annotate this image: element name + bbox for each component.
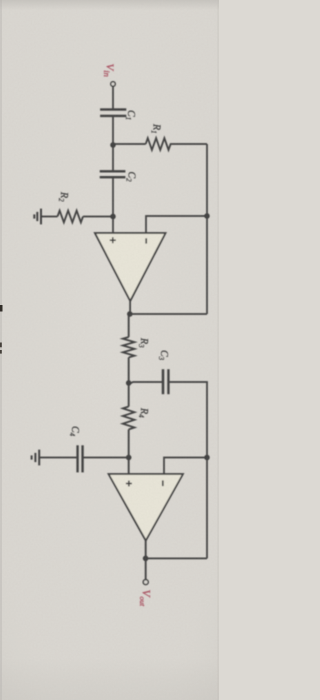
paper background (0, 0, 219, 700)
label plus U2 (126, 481, 132, 487)
wire rail2 down to output U2 (146, 557, 207, 559)
node Vout terminal (143, 580, 148, 585)
wire R3 to node B (128, 357, 130, 406)
paper grain texture (0, 0, 219, 700)
capacitor C4 (78, 445, 83, 472)
edge mark 1 (cut-off text at left edge) (0, 305, 3, 312)
node B (126, 380, 132, 386)
wire C2 to op-amp U1 + input (112, 177, 114, 233)
wire node A up to R1 (113, 143, 146, 145)
wire R2 node down (83, 216, 113, 218)
ground (R2) (34, 209, 41, 225)
wire U1 output (129, 301, 130, 337)
wire node B up to C3 (129, 382, 163, 383)
circuit drawn in landscape coords, rotated 90deg CW into portrait (32, 64, 210, 608)
node rail2-stub junction (204, 455, 210, 461)
node R2 junction (110, 214, 116, 220)
wire node C down to C4 (83, 457, 129, 459)
edge mark 3 (0, 350, 2, 354)
wire R4 to node C (128, 429, 130, 474)
node C (126, 455, 132, 461)
node U1 output junction (127, 311, 133, 317)
op-amp U2 (109, 474, 184, 541)
wire R2 to ground (41, 216, 58, 218)
node U2 output junction (143, 556, 149, 562)
node Vin terminal (111, 82, 116, 87)
wire U2 output (145, 541, 147, 580)
capacitor C1 (100, 110, 126, 116)
wire rail down to output U1 (130, 313, 208, 315)
wire C1 to node A (112, 116, 114, 145)
resistor R3 (123, 337, 135, 357)
node rail1-stub junction (204, 213, 210, 219)
wire R1 to feedback rail (206, 144, 208, 314)
resistor R2 (58, 211, 84, 223)
edge mark 2 (0, 343, 2, 348)
wire minus-input stub U2 (164, 458, 207, 475)
label plus U1 (110, 237, 116, 243)
wire Vin to C1 (112, 86, 114, 109)
op-amp U1 (95, 233, 166, 301)
capacitor C2 (100, 171, 126, 177)
node A (110, 142, 116, 148)
wire C3 to feedback rail 2 (168, 382, 207, 558)
wire minus-input stub U1 (146, 216, 207, 233)
capacitor C3 (163, 369, 168, 394)
ground (C4) (32, 450, 40, 466)
resistor R4 (123, 407, 135, 430)
label minus U1 (145, 238, 147, 243)
resistor R1 (146, 138, 207, 150)
label minus U2 (162, 480, 164, 486)
wire node A to C2 (112, 145, 114, 171)
wire C4 to ground (39, 457, 77, 459)
